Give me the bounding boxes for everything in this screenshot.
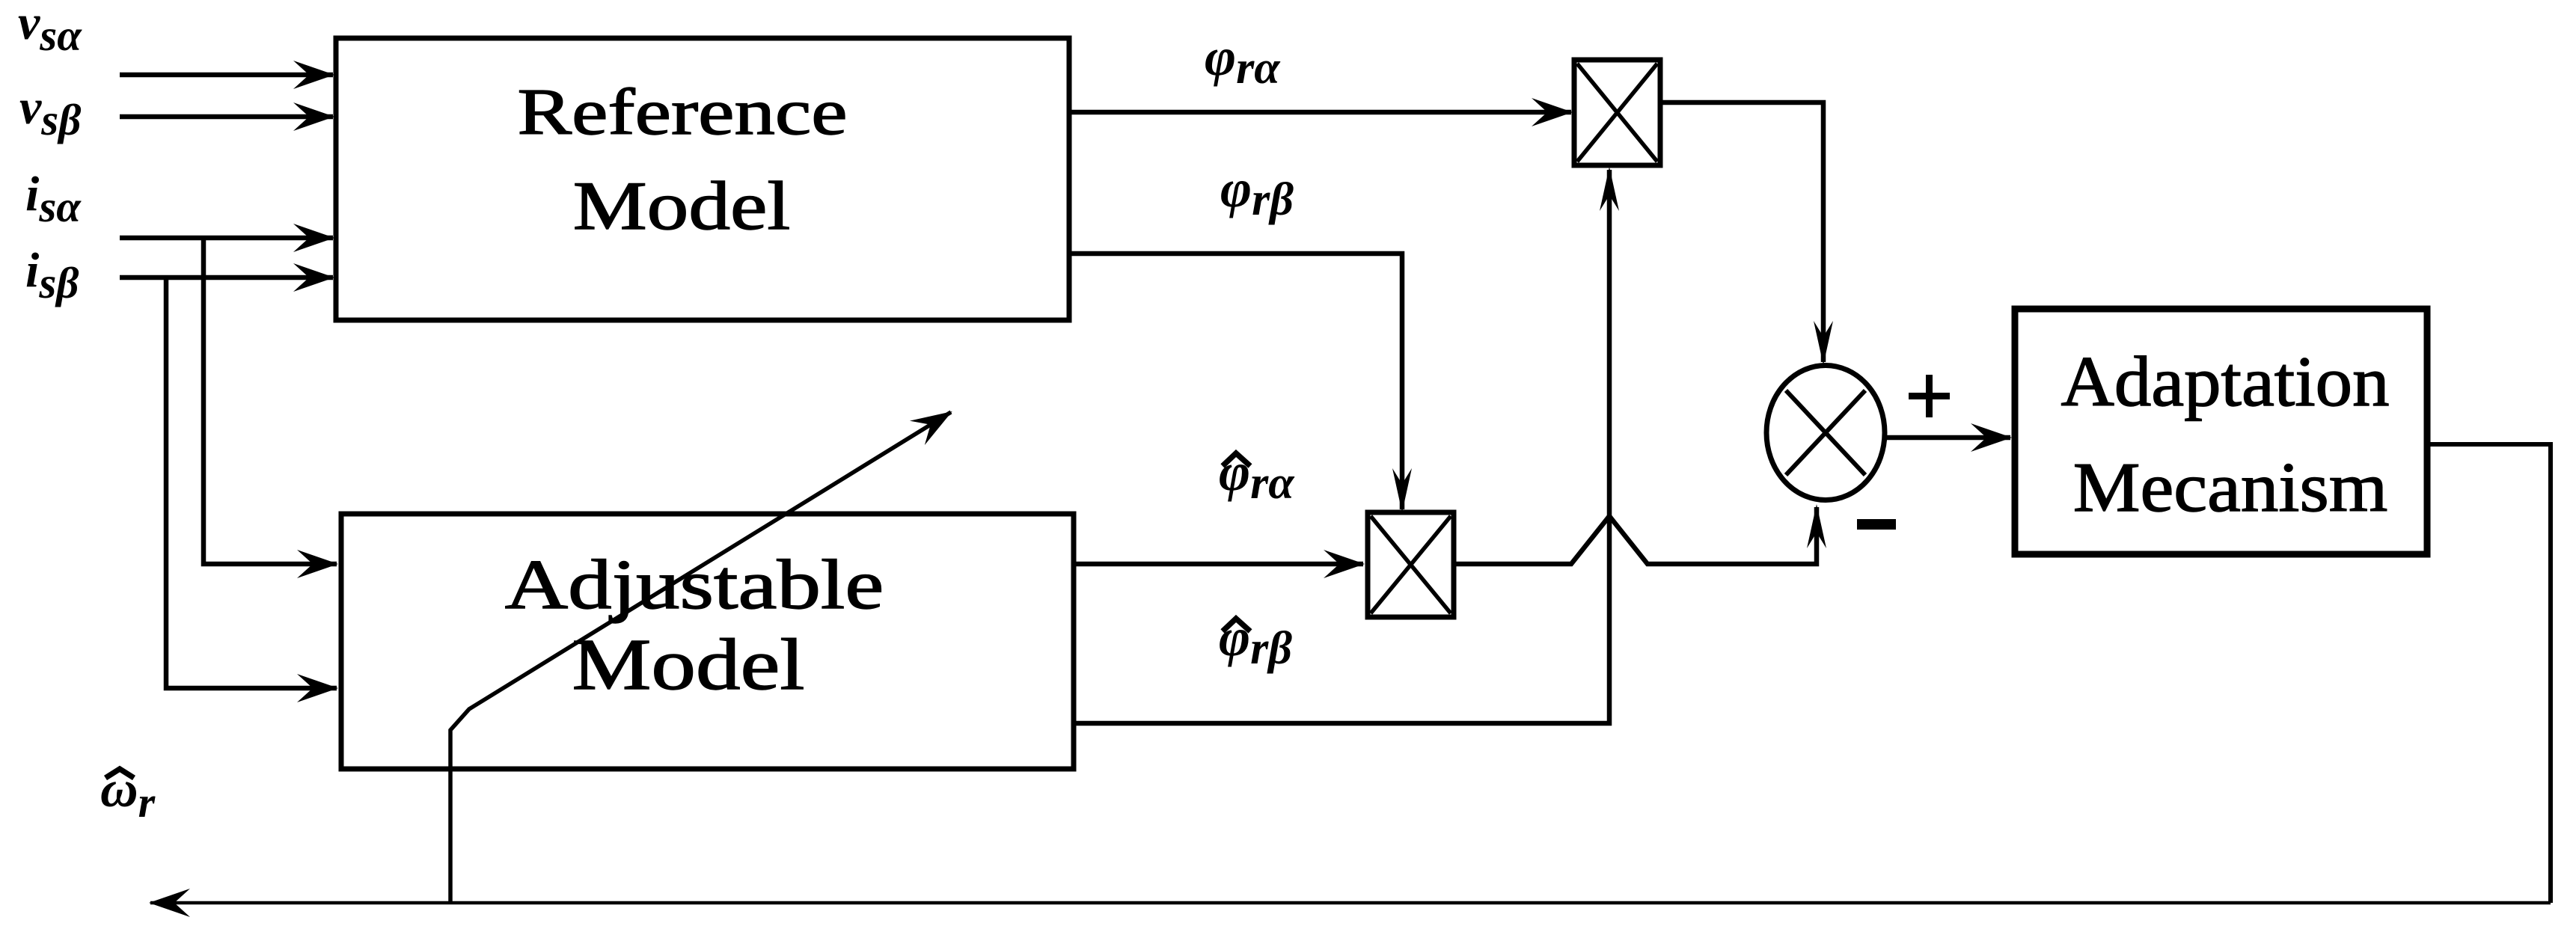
svg-text:vsβ: vsβ — [19, 80, 81, 144]
svg-text:Reference: Reference — [517, 76, 847, 149]
svg-text:Model: Model — [573, 168, 791, 245]
svg-text:ωr: ωr — [100, 761, 156, 827]
svg-text:φrβ: φrβ — [1220, 159, 1294, 225]
svg-text:Adaptation: Adaptation — [2061, 343, 2390, 421]
svg-text:φrβ: φrβ — [1219, 607, 1292, 674]
svg-text:Model: Model — [572, 624, 804, 705]
svg-text:isα: isα — [25, 167, 82, 231]
svg-text:vsα: vsα — [18, 0, 82, 60]
svg-text:φrα: φrα — [1219, 442, 1295, 509]
svg-text:Adjustable: Adjustable — [505, 545, 884, 624]
svg-text:Mecanism: Mecanism — [2073, 449, 2388, 527]
svg-text:isβ: isβ — [25, 243, 79, 307]
svg-text:φrα: φrα — [1205, 27, 1281, 93]
